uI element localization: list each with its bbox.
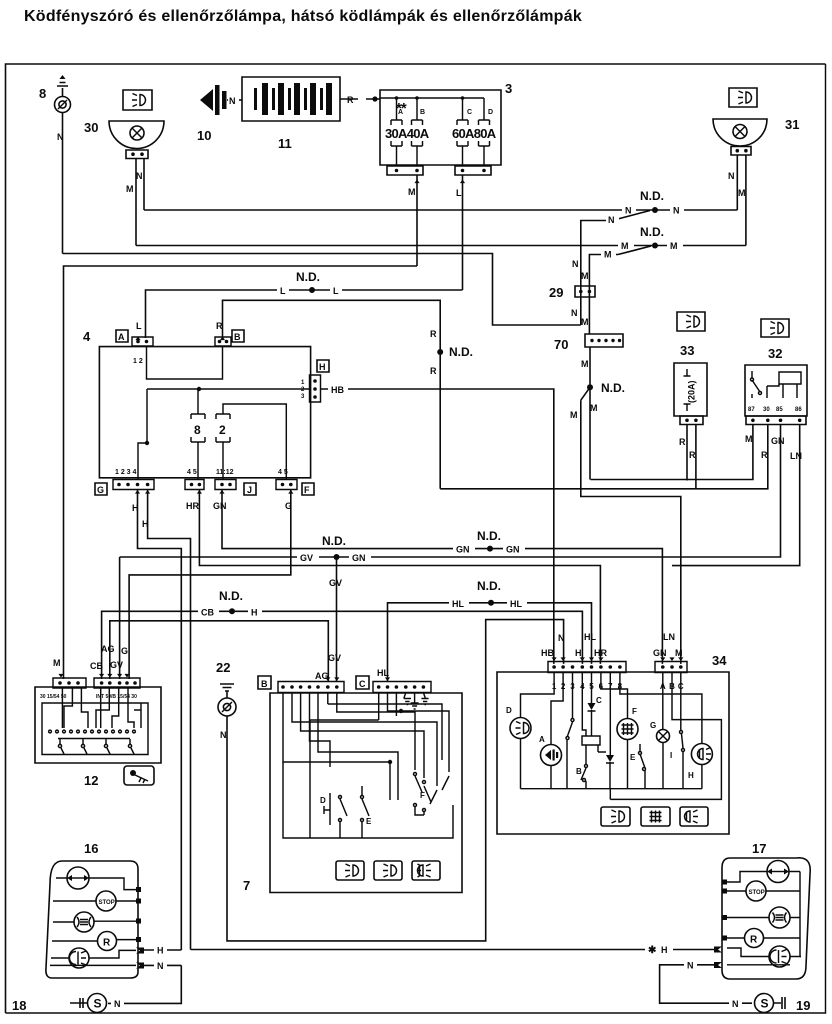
svg-text:R: R xyxy=(216,321,223,331)
svg-text:17: 17 xyxy=(752,841,766,856)
svg-text:I: I xyxy=(670,751,672,760)
svg-text:G: G xyxy=(97,485,104,495)
svg-text:N.D.: N.D. xyxy=(296,270,320,284)
svg-text:M: M xyxy=(621,241,629,251)
svg-text:G: G xyxy=(650,721,656,730)
svg-text:GN: GN xyxy=(456,545,470,555)
svg-text:N.D.: N.D. xyxy=(449,345,473,359)
svg-text:22: 22 xyxy=(216,660,230,675)
svg-text:M: M xyxy=(570,410,578,420)
svg-text:STOP: STOP xyxy=(99,900,115,906)
svg-text:H: H xyxy=(319,362,326,372)
svg-text:J: J xyxy=(247,485,252,495)
svg-text:GN: GN xyxy=(352,553,366,563)
svg-text:18: 18 xyxy=(12,998,26,1013)
svg-text:11:12: 11:12 xyxy=(216,469,234,476)
svg-text:HL: HL xyxy=(377,668,389,678)
svg-text:S: S xyxy=(94,997,102,1011)
svg-text:4 5: 4 5 xyxy=(278,469,288,476)
svg-text:N: N xyxy=(229,96,236,106)
svg-text:H: H xyxy=(661,945,668,955)
svg-text:HL: HL xyxy=(510,599,522,609)
svg-text:H: H xyxy=(251,608,258,618)
svg-text:HR: HR xyxy=(186,501,199,511)
svg-text:Ködfényszóró és ellenőrzőlámpa: Ködfényszóró és ellenőrzőlámpa, hátsó kö… xyxy=(24,8,582,25)
svg-text:4 5: 4 5 xyxy=(187,469,197,476)
svg-text:10: 10 xyxy=(197,128,211,143)
svg-text:N: N xyxy=(220,730,227,740)
svg-text:1 2: 1 2 xyxy=(133,358,143,365)
svg-text:G: G xyxy=(121,646,128,656)
svg-text:F: F xyxy=(632,707,637,716)
svg-text:N.D.: N.D. xyxy=(640,225,664,239)
svg-text:B: B xyxy=(576,767,582,776)
svg-text:GN: GN xyxy=(653,648,667,658)
svg-text:M: M xyxy=(53,658,61,668)
svg-text:E: E xyxy=(630,753,636,762)
svg-text:85: 85 xyxy=(776,407,783,413)
svg-text:L: L xyxy=(280,286,286,296)
svg-text:8: 8 xyxy=(39,86,46,101)
svg-text:N: N xyxy=(687,961,694,971)
svg-text:7: 7 xyxy=(243,878,250,893)
svg-text:N: N xyxy=(136,171,143,181)
svg-text:M: M xyxy=(675,648,683,658)
svg-text:D: D xyxy=(506,706,512,715)
svg-text:LN: LN xyxy=(663,632,675,642)
svg-text:C: C xyxy=(467,109,472,116)
svg-text:29: 29 xyxy=(549,285,563,300)
svg-text:N: N xyxy=(673,206,680,216)
svg-text:N: N xyxy=(572,259,579,269)
svg-text:N: N xyxy=(114,999,121,1009)
svg-text:AG: AG xyxy=(315,671,329,681)
svg-text:31: 31 xyxy=(785,117,799,132)
svg-text:CB: CB xyxy=(90,661,103,671)
svg-text:GV: GV xyxy=(329,578,342,588)
svg-text:CB: CB xyxy=(201,608,214,618)
svg-text:R: R xyxy=(103,938,111,949)
svg-text:R: R xyxy=(761,450,768,460)
svg-text:STOP: STOP xyxy=(749,890,765,896)
svg-text:N: N xyxy=(571,308,578,318)
svg-text:HL: HL xyxy=(584,632,596,642)
svg-text:C: C xyxy=(359,679,366,689)
svg-text:N: N xyxy=(728,171,735,181)
svg-text:R: R xyxy=(430,329,437,339)
svg-text:B: B xyxy=(420,109,425,116)
svg-text:C: C xyxy=(596,696,602,705)
svg-text:70: 70 xyxy=(554,337,568,352)
svg-text:M: M xyxy=(126,184,134,194)
svg-text:F: F xyxy=(304,485,310,495)
svg-text:E: E xyxy=(366,817,372,826)
svg-text:12: 12 xyxy=(84,773,98,788)
svg-text:M: M xyxy=(590,403,598,413)
svg-text:M: M xyxy=(581,359,589,369)
svg-text:30A40A: 30A40A xyxy=(385,126,430,141)
svg-text:M: M xyxy=(604,250,612,260)
svg-text:A: A xyxy=(539,735,545,744)
svg-text:D: D xyxy=(488,109,493,116)
svg-text:60A80A: 60A80A xyxy=(452,126,497,141)
svg-text:M: M xyxy=(745,434,753,444)
svg-text:N.D.: N.D. xyxy=(477,579,501,593)
svg-text:B: B xyxy=(234,332,241,342)
svg-text:GN: GN xyxy=(506,545,520,555)
svg-text:3: 3 xyxy=(505,81,512,96)
svg-text:R: R xyxy=(347,95,354,105)
svg-text:N.D.: N.D. xyxy=(640,189,664,203)
svg-text:R: R xyxy=(750,935,758,946)
svg-text:INT 50/B 15/54 30: INT 50/B 15/54 30 xyxy=(96,694,137,700)
svg-text:87: 87 xyxy=(748,407,755,413)
svg-text:N: N xyxy=(732,999,739,1009)
svg-text:GV: GV xyxy=(110,660,123,670)
svg-text:L: L xyxy=(456,188,462,198)
svg-text:H: H xyxy=(575,648,582,658)
svg-text:HB: HB xyxy=(331,385,344,395)
svg-text:GN: GN xyxy=(771,436,785,446)
svg-text:16: 16 xyxy=(84,841,98,856)
svg-text:M: M xyxy=(738,188,746,198)
svg-text:R: R xyxy=(430,366,437,376)
svg-text:GN: GN xyxy=(213,501,227,511)
svg-text:M: M xyxy=(408,187,416,197)
svg-text:N.D.: N.D. xyxy=(322,534,346,548)
svg-text:A: A xyxy=(398,109,403,116)
svg-text:R: R xyxy=(689,450,696,460)
svg-text:N: N xyxy=(608,215,615,225)
svg-text:H: H xyxy=(688,771,694,780)
svg-text:HB: HB xyxy=(541,648,554,658)
svg-text:✱: ✱ xyxy=(648,945,657,956)
svg-text:GV: GV xyxy=(300,553,313,563)
svg-text:N.D.: N.D. xyxy=(601,381,625,395)
svg-text:D: D xyxy=(320,796,326,805)
svg-text:M: M xyxy=(670,241,678,251)
svg-text:8: 8 xyxy=(194,423,201,437)
svg-text:L: L xyxy=(333,286,339,296)
svg-text:N: N xyxy=(157,961,164,971)
svg-text:B: B xyxy=(261,679,268,689)
svg-text:F: F xyxy=(420,791,425,800)
svg-text:4: 4 xyxy=(83,329,91,344)
svg-text:2: 2 xyxy=(219,423,226,437)
svg-text:N: N xyxy=(625,206,632,216)
svg-text:30: 30 xyxy=(84,120,98,135)
svg-text:N.D.: N.D. xyxy=(219,589,243,603)
svg-text:32: 32 xyxy=(768,346,782,361)
svg-text:(20A): (20A) xyxy=(687,380,697,403)
svg-text:M: M xyxy=(581,317,589,327)
svg-text:LN: LN xyxy=(790,451,802,461)
svg-text:N.D.: N.D. xyxy=(477,529,501,543)
svg-text:A: A xyxy=(118,332,125,342)
svg-text:34: 34 xyxy=(712,653,727,668)
svg-text:33: 33 xyxy=(680,343,694,358)
svg-text:L: L xyxy=(136,321,142,331)
svg-text:AG: AG xyxy=(101,644,115,654)
svg-text:GV: GV xyxy=(328,653,341,663)
svg-text:N: N xyxy=(558,633,565,643)
svg-text:R: R xyxy=(679,437,686,447)
svg-text:19: 19 xyxy=(796,998,810,1013)
svg-text:1 2 3 4: 1 2 3 4 xyxy=(115,469,137,476)
svg-text:HL: HL xyxy=(452,599,464,609)
svg-text:86: 86 xyxy=(795,407,802,413)
svg-text:HR: HR xyxy=(594,648,607,658)
svg-text:S: S xyxy=(761,997,769,1011)
svg-text:11: 11 xyxy=(278,136,292,151)
svg-text:M: M xyxy=(581,271,589,281)
svg-text:30: 30 xyxy=(763,407,770,413)
svg-text:H: H xyxy=(157,946,164,956)
